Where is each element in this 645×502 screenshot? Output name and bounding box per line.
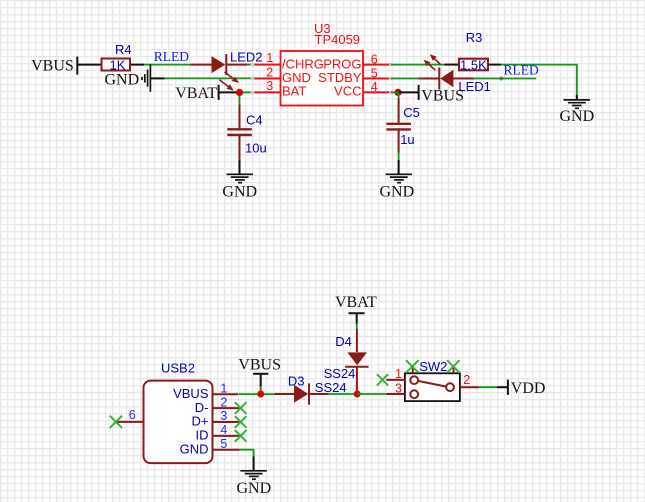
svg-text:5: 5 xyxy=(371,66,378,80)
svg-text:2: 2 xyxy=(463,373,470,387)
svg-text:VBUS: VBUS xyxy=(421,87,464,104)
svg-text:GND: GND xyxy=(237,480,272,497)
svg-text:3: 3 xyxy=(220,409,227,423)
svg-text:6: 6 xyxy=(371,52,378,66)
svg-text:D4: D4 xyxy=(335,334,352,349)
svg-text:VCC: VCC xyxy=(334,84,361,99)
svg-text:4: 4 xyxy=(371,80,378,94)
svg-text:TP4059: TP4059 xyxy=(315,32,361,47)
svg-text:SW2: SW2 xyxy=(419,359,447,374)
svg-text:2: 2 xyxy=(266,65,273,79)
svg-text:SS24: SS24 xyxy=(315,380,347,395)
svg-text:5: 5 xyxy=(220,437,227,451)
svg-text:VBUS: VBUS xyxy=(173,386,209,401)
svg-text:GND: GND xyxy=(180,441,209,456)
svg-text:GND: GND xyxy=(560,108,595,125)
svg-text:4: 4 xyxy=(220,423,227,437)
svg-text:2: 2 xyxy=(220,395,227,409)
svg-text:VBAT: VBAT xyxy=(175,85,217,102)
svg-text:LED2: LED2 xyxy=(230,50,263,65)
svg-text:3: 3 xyxy=(395,382,402,396)
svg-text:VBUS: VBUS xyxy=(238,357,281,374)
svg-text:C5: C5 xyxy=(403,105,420,120)
svg-text:R4: R4 xyxy=(115,42,132,57)
svg-text:GND: GND xyxy=(105,72,140,89)
svg-text:VBUS: VBUS xyxy=(31,57,74,74)
svg-text:RLED: RLED xyxy=(154,49,189,64)
svg-text:1K: 1K xyxy=(110,57,126,72)
svg-text:ID: ID xyxy=(196,428,209,443)
svg-text:SS24: SS24 xyxy=(324,366,356,381)
svg-text:VBAT: VBAT xyxy=(335,294,377,311)
svg-text:VDD: VDD xyxy=(511,380,546,397)
svg-text:10u: 10u xyxy=(245,141,267,156)
svg-text:D3: D3 xyxy=(288,374,305,389)
svg-text:R3: R3 xyxy=(466,30,483,45)
svg-text:1: 1 xyxy=(395,367,402,381)
svg-text:USB2: USB2 xyxy=(161,361,195,376)
svg-text:1u: 1u xyxy=(400,132,414,147)
svg-text:D+: D+ xyxy=(192,414,209,429)
svg-text:GND: GND xyxy=(380,184,415,201)
svg-text:3: 3 xyxy=(266,79,273,93)
svg-text:D-: D- xyxy=(195,400,209,415)
svg-text:1: 1 xyxy=(266,51,273,65)
svg-text:1.5K: 1.5K xyxy=(460,57,487,72)
svg-text:1: 1 xyxy=(220,381,227,395)
svg-text:BAT: BAT xyxy=(282,84,306,99)
svg-text:RLED: RLED xyxy=(504,63,539,78)
svg-text:C4: C4 xyxy=(246,112,263,127)
svg-text:GND: GND xyxy=(222,184,257,201)
svg-text:6: 6 xyxy=(129,408,136,422)
